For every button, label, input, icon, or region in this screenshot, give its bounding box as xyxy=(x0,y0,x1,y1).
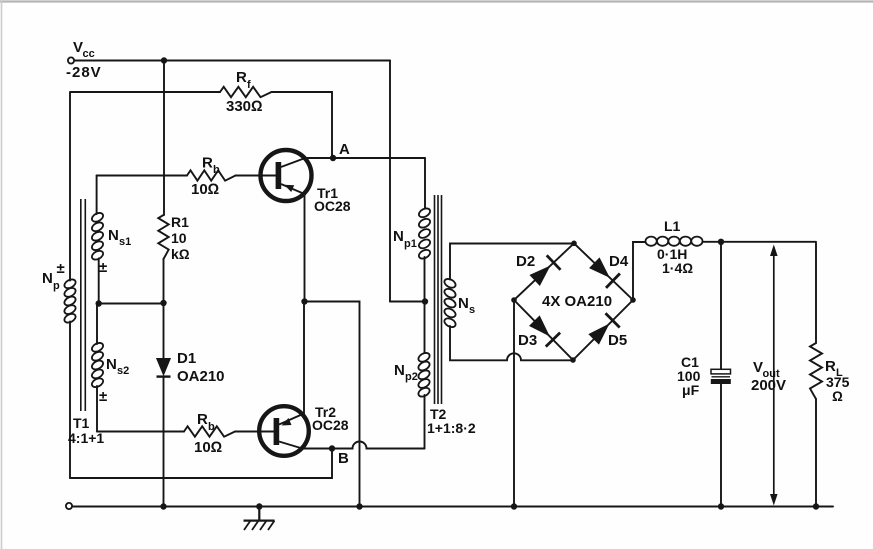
svg-text:D5: D5 xyxy=(608,332,627,349)
transistor Tr1 OC28 xyxy=(261,150,351,214)
wire Ns1 bottom lead xyxy=(98,259,100,304)
svg-text:-28V: -28V xyxy=(66,64,102,81)
capacitor C1 xyxy=(677,242,731,507)
wire Vcc top rail xyxy=(74,60,390,62)
transformer T2 winding Np1 xyxy=(393,207,432,261)
svg-text:R1: R1 xyxy=(171,214,189,230)
wire centre-tap link xyxy=(390,301,425,303)
node T2 centre tap xyxy=(422,298,428,304)
transformer T1 label xyxy=(68,415,104,446)
diode D5 xyxy=(589,313,627,349)
scan border left xyxy=(1,0,3,549)
svg-text:b: b xyxy=(208,421,215,433)
svg-text:10: 10 xyxy=(171,230,187,246)
wire Np1 top lead xyxy=(424,158,426,210)
svg-text:D1: D1 xyxy=(177,350,196,367)
resistor Rf xyxy=(220,69,272,115)
svg-text:N: N xyxy=(42,270,53,287)
wire Ns2 bottom lead xyxy=(96,386,98,432)
wire centre tap to Np2 xyxy=(424,302,426,355)
svg-text:R: R xyxy=(202,155,213,172)
svg-text:N: N xyxy=(393,228,404,245)
svg-text:B: B xyxy=(338,450,349,467)
node bridge ground xyxy=(511,503,517,509)
svg-text:L1: L1 xyxy=(664,218,681,234)
svg-text:N: N xyxy=(394,362,405,379)
wire emitter tie line xyxy=(305,302,360,507)
transformer T2 winding Np2 xyxy=(394,351,431,398)
node D1 ground xyxy=(160,503,166,509)
wire Np bottom lead to B feedback xyxy=(69,322,71,479)
svg-text:kΩ: kΩ xyxy=(171,246,190,262)
svg-text:V: V xyxy=(73,39,83,56)
resistor Rb (upper) xyxy=(97,155,276,199)
node filter output xyxy=(718,239,724,245)
svg-text:D4: D4 xyxy=(609,253,629,270)
wire B feedback to T1 primary xyxy=(70,449,332,479)
wire Np2 bottom lead to B line xyxy=(424,395,426,449)
svg-text:10Ω: 10Ω xyxy=(191,181,219,198)
transformer T1 winding Ns2 xyxy=(90,341,129,389)
node emitter junction xyxy=(301,298,307,304)
wire L1 to output xyxy=(703,241,817,243)
svg-text:±: ± xyxy=(99,259,107,276)
wire Np top lead xyxy=(69,92,71,281)
svg-text:p1: p1 xyxy=(404,238,417,250)
ground rail xyxy=(72,506,833,508)
svg-text:s2: s2 xyxy=(117,365,129,377)
diode D2 xyxy=(516,253,561,285)
diode D3 xyxy=(518,316,560,349)
resistor Rb (lower) xyxy=(97,411,274,456)
svg-text:cc: cc xyxy=(83,48,95,60)
node C1 ground xyxy=(718,503,724,509)
svg-text:R: R xyxy=(236,69,247,86)
svg-text:N: N xyxy=(458,295,469,312)
annotation Vout arrow xyxy=(751,245,786,506)
svg-text:μF: μF xyxy=(682,382,700,398)
svg-text:1+1:8·2: 1+1:8·2 xyxy=(427,420,476,436)
wire Rf to node A xyxy=(272,92,333,158)
wire Tr2 emitter up xyxy=(303,302,305,414)
svg-text:200V: 200V xyxy=(751,377,786,394)
wire Ns2 top lead xyxy=(96,304,98,345)
scan border top xyxy=(0,0,873,2)
resistor RL xyxy=(810,243,850,507)
node emitter ground xyxy=(356,503,362,509)
svg-text:b: b xyxy=(213,164,220,176)
wire Rf feedback line left xyxy=(71,91,221,93)
diode bridge frame xyxy=(511,241,636,363)
ground symbol xyxy=(244,507,275,531)
node RL ground xyxy=(813,503,819,509)
svg-text:4X OA210: 4X OA210 xyxy=(542,293,612,310)
svg-text:N: N xyxy=(108,227,119,244)
wire Ns top lead to bridge xyxy=(450,244,574,280)
wire Ns bottom lead to bridge with hop xyxy=(450,326,573,360)
svg-text:R: R xyxy=(197,411,208,428)
wire bridge minus to ground rail xyxy=(513,300,515,507)
svg-text:±: ± xyxy=(99,388,107,405)
node R1/D1 tap xyxy=(160,300,166,306)
node Ns1/Ns2 junction xyxy=(96,300,102,306)
svg-text:s1: s1 xyxy=(119,236,131,248)
svg-text:D3: D3 xyxy=(518,332,537,349)
wire Tr1 emitter down xyxy=(304,194,306,302)
Vcc supply terminal xyxy=(66,39,102,81)
svg-text:T1: T1 xyxy=(73,415,90,431)
transformer T1 winding Np xyxy=(42,270,77,324)
svg-text:Ω: Ω xyxy=(832,388,843,404)
diode D1 xyxy=(157,303,225,507)
svg-text:N: N xyxy=(106,356,117,373)
transformer T2 core xyxy=(435,195,442,404)
node Vcc junction xyxy=(161,57,167,63)
svg-text:f: f xyxy=(247,79,251,91)
svg-text:s: s xyxy=(469,304,475,316)
wire collector B line with hop xyxy=(302,442,425,449)
svg-text:±: ± xyxy=(57,260,65,277)
svg-text:OA210: OA210 xyxy=(177,368,225,385)
svg-text:p: p xyxy=(53,280,60,292)
wire bridge plus up to L1 xyxy=(633,242,646,300)
node ground symbol junction xyxy=(256,503,262,509)
svg-text:OC28: OC28 xyxy=(312,417,349,433)
transformer T2 winding Ns xyxy=(443,277,475,329)
wire T1 secondary centre tap xyxy=(99,303,164,305)
svg-text:R: R xyxy=(825,358,836,375)
wire Ns1 top lead xyxy=(96,176,98,215)
svg-text:10Ω: 10Ω xyxy=(194,439,222,456)
wire Np1 bottom to centre tap xyxy=(424,257,426,302)
transformer T1 winding Ns1 xyxy=(90,211,131,261)
svg-text:A: A xyxy=(339,141,350,158)
transformer T1 core xyxy=(81,199,86,411)
inductor L1 xyxy=(646,218,703,276)
transistor Tr2 OC28 xyxy=(259,404,349,456)
svg-text:D2: D2 xyxy=(516,253,535,270)
svg-text:p2: p2 xyxy=(405,371,418,383)
diode D4 xyxy=(590,253,629,288)
svg-text:OC28: OC28 xyxy=(314,198,351,214)
svg-text:V: V xyxy=(753,359,763,376)
svg-text:1·4Ω: 1·4Ω xyxy=(662,260,693,276)
terminal bottom left xyxy=(66,503,72,509)
svg-text:330Ω: 330Ω xyxy=(226,98,263,115)
wire Vcc rail down right side (to T2 centre tap) xyxy=(389,61,391,302)
node B xyxy=(329,445,349,467)
transformer T2 label xyxy=(427,406,476,436)
resistor R1 xyxy=(158,61,189,304)
wire collector line through node A xyxy=(305,157,425,159)
node A xyxy=(330,141,350,161)
